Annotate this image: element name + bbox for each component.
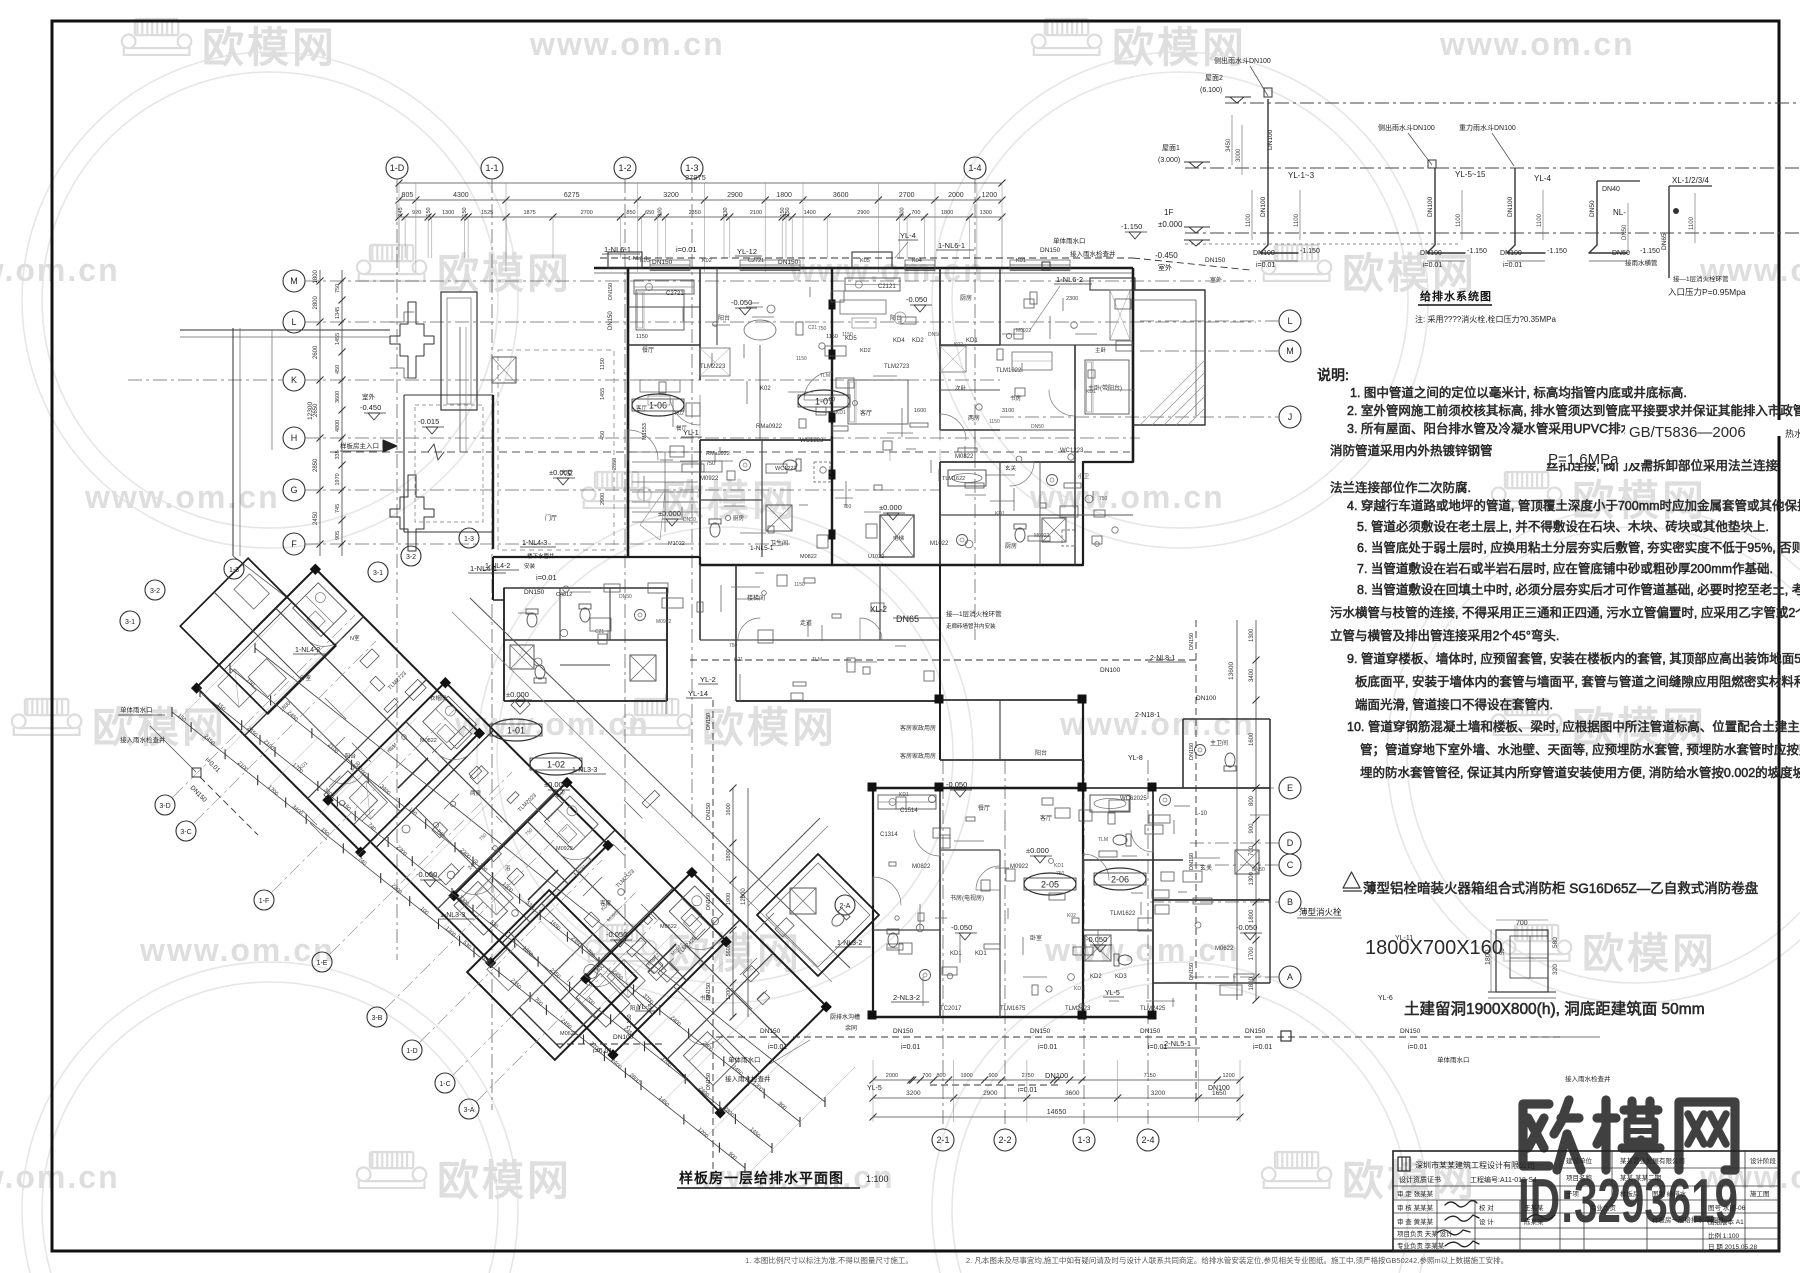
svg-text:厨房: 厨房 — [960, 294, 972, 302]
svg-text:2. 室外管网施工前须校核其标高, 排水管须达到管底平接要: 2. 室外管网施工前须校核其标高, 排水管须达到管底平接要求并保证其能排入市政管… — [1347, 403, 1800, 418]
svg-text:2300: 2300 — [1066, 296, 1078, 302]
svg-text:1525: 1525 — [481, 210, 493, 216]
svg-text:2900: 2900 — [600, 493, 606, 505]
svg-text:DN100: DN100 — [1420, 250, 1442, 257]
svg-text:2-06: 2-06 — [1111, 875, 1129, 885]
svg-text:1-3: 1-3 — [229, 567, 239, 574]
svg-text:1300: 1300 — [442, 210, 454, 216]
svg-text:欧模网: 欧模网 — [437, 250, 572, 297]
svg-text:1800: 1800 — [776, 192, 792, 199]
svg-text:DN150: DN150 — [1189, 963, 1195, 980]
svg-text:接入雨水检查井: 接入雨水检查井 — [1070, 249, 1116, 258]
svg-text:±0.000: ±0.000 — [506, 690, 529, 699]
svg-text:某某·某某二期: 某某·某某二期 — [1620, 1174, 1662, 1182]
svg-text:接—1层消火栓环管: 接—1层消火栓环管 — [946, 609, 1002, 618]
svg-text:DN100: DN100 — [1260, 196, 1267, 217]
top wing extra detail — [632, 451, 698, 453]
svg-text:YL-4: YL-4 — [900, 231, 916, 240]
svg-text:5600: 5600 — [726, 944, 732, 956]
svg-text:KD1: KD1 — [950, 951, 962, 957]
svg-text:阳台: 阳台 — [718, 314, 730, 322]
svg-text:TLM1622: TLM1622 — [942, 476, 965, 482]
svg-text:比例 1:100: 比例 1:100 — [1708, 1231, 1739, 1240]
svg-text:走廊砖墙管井内安装: 走廊砖墙管井内安装 — [946, 622, 996, 630]
svg-text:K: K — [291, 375, 297, 385]
svg-text:1-NL5-1: 1-NL5-1 — [750, 545, 774, 552]
svg-text:侧出雨水斗DN100: 侧出雨水斗DN100 — [1214, 56, 1271, 65]
svg-text:DN100: DN100 — [1253, 250, 1275, 257]
svg-text:1150: 1150 — [796, 356, 807, 362]
svg-text:室外: 室外 — [1210, 276, 1222, 284]
svg-text:1600: 1600 — [1249, 732, 1255, 746]
svg-text:欧模网: 欧模网 — [702, 704, 837, 751]
svg-text:1-NL4-2: 1-NL4-2 — [295, 647, 320, 654]
svg-text:样板房一层给排水平面图: 样板房一层给排水平面图 — [679, 1170, 844, 1186]
svg-text:样板房: 样板房 — [1620, 1189, 1640, 1198]
svg-text:1100: 1100 — [1294, 213, 1300, 227]
entrance lobby — [441, 292, 477, 410]
svg-text:www.om.cn: www.om.cn — [1029, 479, 1225, 515]
svg-text:L: L — [291, 317, 296, 327]
svg-text:M0922: M0922 — [656, 619, 672, 625]
svg-text:1-NL6-2: 1-NL6-2 — [1056, 275, 1083, 284]
svg-text:客厅: 客厅 — [1040, 814, 1052, 822]
svg-text:客房家政用房: 客房家政用房 — [900, 752, 936, 760]
svg-text:1150: 1150 — [989, 419, 1000, 425]
top dimension chains — [399, 182, 1002, 184]
svg-text:M1022: M1022 — [668, 541, 685, 547]
svg-text:1. 本图比例尺寸以标注为准,不得以图量尺寸施工。: 1. 本图比例尺寸以标注为准,不得以图量尺寸施工。 — [745, 1255, 913, 1265]
svg-text:DN150: DN150 — [760, 1028, 781, 1035]
svg-text:2-A: 2-A — [840, 903, 851, 910]
svg-text:1-02: 1-02 — [547, 760, 565, 770]
svg-text:YL-2: YL-2 — [700, 675, 716, 684]
svg-text:i=0.01: i=0.01 — [1408, 1044, 1427, 1051]
svg-text:1-3: 1-3 — [464, 536, 474, 543]
svg-text:50: 50 — [1500, 948, 1506, 955]
svg-text:M0622: M0622 — [1215, 946, 1234, 952]
svg-text:YL-5: YL-5 — [1105, 990, 1120, 997]
svg-text:KD1: KD1 — [966, 338, 978, 344]
svg-text:1600: 1600 — [914, 408, 926, 414]
svg-text:1900: 1900 — [726, 893, 732, 905]
svg-text:DN50: DN50 — [1612, 250, 1630, 257]
svg-text:1800: 1800 — [313, 269, 319, 283]
svg-text:3200: 3200 — [1151, 1090, 1166, 1097]
svg-text:-0.050: -0.050 — [906, 295, 927, 304]
svg-text:2350: 2350 — [689, 210, 701, 216]
svg-text:书房: 书房 — [1010, 394, 1022, 402]
svg-text:750: 750 — [1099, 496, 1108, 502]
svg-text:K01: K01 — [1016, 258, 1026, 264]
svg-text:WC1223: WC1223 — [775, 466, 796, 472]
svg-text:F: F — [291, 539, 297, 549]
svg-text:YL-11: YL-11 — [1395, 935, 1413, 942]
svg-text:YL-5~15: YL-5~15 — [1455, 170, 1486, 179]
diagonal dimension chains — [172, 712, 745, 1168]
svg-text:单体雨水口: 单体雨水口 — [120, 705, 153, 714]
svg-text:DN50: DN50 — [1031, 424, 1044, 430]
svg-text:板底面平, 安装于墙体内的套管与墙面平, 套管与管道之间缝隙: 板底面平, 安装于墙体内的套管与墙面平, 套管与管道之间缝隙应用阻燃密实材料和防… — [1355, 674, 1800, 689]
svg-text:1100: 1100 — [1537, 213, 1543, 227]
svg-text:王某某: 王某某 — [1524, 1204, 1544, 1212]
svg-text:DN150: DN150 — [1189, 743, 1195, 760]
svg-text:745: 745 — [335, 504, 341, 513]
svg-text:750: 750 — [729, 643, 738, 649]
svg-text:某某置业发展有限公司: 某某置业发展有限公司 — [1620, 1156, 1685, 1165]
detail sprinkle — [825, 346, 846, 356]
svg-text:TLM1675: TLM1675 — [1000, 1006, 1026, 1012]
svg-text:2700: 2700 — [581, 210, 593, 216]
svg-text:M1553: M1553 — [642, 423, 648, 440]
svg-text:M: M — [290, 276, 298, 286]
svg-text:KD2: KD2 — [912, 338, 924, 344]
svg-text:GB/T5836—2006: GB/T5836—2006 — [1629, 424, 1746, 441]
svg-text:YL-1~3: YL-1~3 — [1288, 171, 1315, 180]
svg-text:DN50: DN50 — [1622, 224, 1628, 240]
bottom dimension chains — [873, 1079, 1240, 1081]
svg-text:薄型消火栓: 薄型消火栓 — [1299, 907, 1342, 917]
svg-text:900: 900 — [1249, 823, 1255, 834]
svg-text:M0822: M0822 — [955, 454, 974, 460]
svg-text:M1022: M1022 — [930, 541, 949, 547]
svg-text:欧模网: 欧模网 — [437, 1157, 572, 1204]
svg-text:WC62025: WC62025 — [1120, 796, 1147, 802]
svg-text:TC2017: TC2017 — [940, 1006, 962, 1012]
svg-text:YL-4: YL-4 — [1534, 174, 1551, 183]
svg-text:i=0.01: i=0.01 — [1503, 262, 1522, 269]
svg-text:1-E: 1-E — [317, 960, 328, 967]
svg-text:设计阶段: 设计阶段 — [1750, 1156, 1777, 1165]
svg-text:1:100: 1:100 — [866, 1174, 889, 1184]
svg-text:DN100: DN100 — [1045, 1071, 1068, 1080]
svg-text:YL-12: YL-12 — [737, 247, 757, 256]
svg-text:M0922: M0922 — [700, 476, 719, 482]
svg-text:KD1: KD1 — [1054, 863, 1064, 869]
svg-text:-0.015: -0.015 — [418, 417, 439, 426]
svg-text:i=0.01: i=0.01 — [1018, 1087, 1037, 1094]
svg-text:接入雨水检查井: 接入雨水检查井 — [120, 735, 166, 744]
svg-text:DN150: DN150 — [1030, 1028, 1051, 1035]
svg-text:埋的防水套管管径, 保证其内所穿管道安装使用方便, 消防给水: 埋的防水套管管径, 保证其内所穿管道安装使用方便, 消防给水管按0.002的坡度… — [1360, 765, 1800, 780]
svg-text:C2121: C2121 — [878, 284, 896, 290]
svg-text:±0.000: ±0.000 — [544, 780, 567, 789]
svg-text:M0822: M0822 — [800, 554, 817, 560]
svg-text:750: 750 — [706, 461, 715, 467]
svg-text:1-NL6-1: 1-NL6-1 — [604, 245, 631, 254]
svg-text:±0.000: ±0.000 — [1158, 220, 1183, 229]
svg-text:2-2: 2-2 — [998, 1135, 1011, 1145]
svg-text:3. 所有屋面、阳台排水管及冷凝水管采用UPVC排水管: 3. 所有屋面、阳台排水管及冷凝水管采用UPVC排水管 — [1347, 421, 1646, 436]
svg-text:805: 805 — [402, 192, 414, 199]
svg-text:K05: K05 — [860, 258, 870, 264]
svg-text:两房: 两房 — [470, 789, 482, 797]
svg-text:端面光滑, 管道接口不得设在套管内.: 端面光滑, 管道接口不得设在套管内. — [1355, 697, 1553, 712]
svg-text:L: L — [1287, 316, 1292, 326]
svg-text:KD1: KD1 — [1074, 986, 1084, 992]
svg-text:接雨水横管: 接雨水横管 — [1625, 258, 1658, 267]
svg-text:4300: 4300 — [453, 192, 469, 199]
svg-text:M0822: M0822 — [420, 738, 437, 744]
svg-text:1F: 1F — [1164, 208, 1173, 217]
svg-text:320: 320 — [1552, 964, 1559, 975]
svg-text:建设单位: 建设单位 — [1566, 1156, 1593, 1165]
svg-text:3450: 3450 — [1226, 138, 1232, 152]
svg-text:1-3: 1-3 — [1077, 1135, 1090, 1145]
svg-text:DN150: DN150 — [706, 983, 712, 1000]
svg-text:750: 750 — [843, 504, 852, 510]
svg-text:1-NL6-1: 1-NL6-1 — [938, 241, 965, 250]
svg-text:900: 900 — [989, 1073, 998, 1079]
svg-text:3200: 3200 — [906, 1090, 921, 1097]
svg-text:-0.050: -0.050 — [606, 930, 627, 939]
svg-text:说明:: 说明: — [1317, 367, 1349, 383]
right dimension column — [1255, 620, 1257, 1000]
svg-text:DN50: DN50 — [1252, 867, 1265, 873]
svg-text:DN150: DN150 — [608, 283, 614, 300]
svg-text:屋面2: 屋面2 — [1205, 74, 1223, 82]
svg-text:DN150: DN150 — [608, 311, 614, 330]
svg-text:650: 650 — [645, 210, 654, 216]
svg-text:1-D: 1-D — [406, 1048, 417, 1055]
svg-text:1-NL4-3: 1-NL4-3 — [522, 540, 547, 547]
svg-text:3-D: 3-D — [159, 803, 170, 810]
svg-text:2-4: 2-4 — [1141, 1135, 1154, 1145]
svg-text:12600: 12600 — [741, 888, 747, 905]
svg-text:3-A: 3-A — [464, 1107, 475, 1114]
svg-text:1900: 1900 — [960, 1073, 972, 1079]
svg-text:DN150: DN150 — [524, 589, 545, 596]
svg-text:校 对: 校 对 — [1479, 1203, 1494, 1212]
svg-text:1100: 1100 — [1246, 213, 1252, 227]
svg-text:KD1: KD1 — [836, 410, 846, 416]
svg-text:TLM: TLM — [812, 657, 822, 663]
svg-text:1-01: 1-01 — [507, 726, 525, 736]
svg-text:DN50: DN50 — [683, 517, 696, 523]
svg-text:-1.150: -1.150 — [1121, 222, 1142, 231]
svg-text:14650: 14650 — [1047, 1109, 1067, 1116]
svg-text:接入雨水检查井: 接入雨水检查井 — [725, 1074, 771, 1083]
lower block left dims — [732, 788, 734, 1017]
svg-text:图别 给排水: 图别 给排水 — [1652, 1189, 1687, 1198]
svg-text:客厅: 客厅 — [860, 409, 872, 417]
svg-text:1-C: 1-C — [439, 1081, 450, 1088]
svg-text:P=1.6MPa: P=1.6MPa — [1548, 451, 1619, 468]
svg-text:J: J — [1288, 412, 1293, 422]
svg-text:M0822: M0822 — [912, 864, 931, 870]
svg-text:www.om.cn: www.om.cn — [139, 932, 335, 968]
svg-text:DN150: DN150 — [1245, 1028, 1266, 1035]
svg-text:立管与横管及排出管连接采用2个45°弯头.: 立管与横管及排出管连接采用2个45°弯头. — [1330, 628, 1559, 643]
svg-text:8. 当管道敷设在回填土中时, 必须分层夯实后才可作管道基: 8. 当管道敷设在回填土中时, 必须分层夯实后才可作管道基础, 必要时挖至老土,… — [1357, 582, 1800, 597]
svg-text:DN100: DN100 — [1100, 667, 1121, 674]
svg-text:1-06: 1-06 — [649, 401, 667, 411]
svg-text:2750: 2750 — [1022, 1073, 1034, 1079]
svg-text:DN150: DN150 — [1189, 633, 1195, 650]
svg-text:TLM2723: TLM2723 — [884, 364, 910, 370]
svg-text:750: 750 — [335, 284, 341, 293]
svg-text:-0.450: -0.450 — [360, 403, 381, 412]
svg-text:室外: 室外 — [362, 392, 376, 401]
svg-text:小卫: 小卫 — [1078, 472, 1090, 480]
svg-text:700: 700 — [911, 210, 920, 216]
svg-text:K02: K02 — [702, 258, 712, 264]
svg-text:6275: 6275 — [564, 192, 580, 199]
svg-text:i=0.01: i=0.01 — [901, 1044, 920, 1051]
svg-text:YL-6: YL-6 — [1378, 995, 1393, 1002]
svg-text:B: B — [1287, 897, 1293, 907]
svg-text:衣帽间: 衣帽间 — [430, 694, 447, 702]
svg-text:1800: 1800 — [726, 849, 732, 861]
svg-text:日 期 2015.05.28: 日 期 2015.05.28 — [1708, 1243, 1758, 1251]
svg-text:1100: 1100 — [1456, 213, 1462, 227]
svg-text:主卫间: 主卫间 — [1210, 739, 1228, 747]
svg-text:920: 920 — [412, 210, 421, 216]
svg-text:DN100: DN100 — [1500, 250, 1522, 257]
svg-text:H: H — [291, 433, 298, 443]
svg-text:WC1223: WC1223 — [800, 438, 824, 444]
svg-text:2-05: 2-05 — [1041, 880, 1059, 890]
svg-text:专业负责: 专业负责 — [1590, 1203, 1617, 1212]
diagonal wing rooms — [180, 540, 871, 1118]
svg-text:i=0.01: i=0.01 — [1256, 262, 1275, 269]
svg-text:-0.050: -0.050 — [731, 298, 752, 307]
svg-text:审 核 某某某: 审 核 某某某 — [1397, 1203, 1434, 1212]
axis grid lines and bubbles — [386, 157, 408, 179]
svg-text:1800: 1800 — [1249, 909, 1255, 923]
svg-text:法兰连接部位作二次防腐.: 法兰连接部位作二次防腐. — [1330, 480, 1471, 495]
svg-text:1-2: 1-2 — [618, 163, 631, 173]
svg-text:450: 450 — [335, 365, 341, 374]
svg-text:i=0.01: i=0.01 — [536, 573, 557, 582]
svg-text:DN50: DN50 — [928, 332, 941, 338]
svg-text:YL-8: YL-8 — [1128, 755, 1143, 762]
svg-text:子项: 子项 — [1566, 1190, 1580, 1198]
svg-text:1200: 1200 — [982, 192, 998, 199]
svg-text:DN100: DN100 — [1427, 196, 1434, 217]
system diagram 给排水系统图 — [1225, 102, 1800, 104]
svg-text:DN65: DN65 — [896, 614, 919, 624]
svg-text:450: 450 — [600, 431, 606, 440]
svg-text:玄关: 玄关 — [1005, 464, 1017, 472]
svg-text:1150: 1150 — [794, 582, 805, 588]
svg-text:TLM: TLM — [1098, 837, 1108, 843]
svg-text:K02: K02 — [954, 342, 963, 348]
svg-text:YL-5: YL-5 — [867, 1085, 882, 1092]
svg-text:D: D — [1287, 838, 1294, 848]
svg-text:3100: 3100 — [1002, 408, 1014, 414]
svg-text:1. 图中管道之间的定位以毫米计, 标高均指管内底或井底标: 1. 图中管道之间的定位以毫米计, 标高均指管内底或井底标高. — [1350, 385, 1687, 400]
svg-text:1-4: 1-4 — [968, 163, 981, 173]
svg-text:C2721: C2721 — [666, 291, 684, 297]
svg-text:给排水系统图: 给排水系统图 — [1420, 289, 1492, 303]
svg-text:图号 水施-06: 图号 水施-06 — [1708, 1203, 1746, 1212]
svg-text:室外: 室外 — [1158, 263, 1172, 272]
svg-text:审 查 黄某某: 审 查 黄某某 — [1397, 1217, 1434, 1226]
title block table — [1393, 1151, 1779, 1251]
svg-text:客房家政用房: 客房家政用房 — [900, 724, 936, 732]
svg-text:M0622: M0622 — [660, 924, 677, 930]
svg-text:1300: 1300 — [1249, 628, 1255, 642]
svg-text:i=0.01: i=0.01 — [1423, 262, 1442, 269]
svg-text:K02: K02 — [675, 411, 684, 417]
svg-text:700: 700 — [922, 1073, 931, 1079]
svg-text:接—1层消火栓环管: 接—1层消火栓环管 — [1673, 274, 1729, 283]
svg-text:K02: K02 — [760, 386, 771, 392]
svg-text:www.om.cn: www.om.cn — [84, 479, 280, 515]
svg-text:3600: 3600 — [335, 391, 341, 403]
svg-text:KD1: KD1 — [975, 951, 987, 957]
svg-text:DN150: DN150 — [1040, 247, 1061, 254]
svg-text:2-1: 2-1 — [936, 1135, 949, 1145]
svg-text:RMa0922: RMa0922 — [706, 451, 730, 457]
svg-text:薄型铝栓暗装火器箱组合式消防柜 SG16D65Z—乙自救式: 薄型铝栓暗装火器箱组合式消防柜 SG16D65Z—乙自救式消防卷盘 — [1363, 880, 1758, 896]
svg-text:消防管道采用内外热镀锌钢管: 消防管道采用内外热镀锌钢管 — [1330, 443, 1493, 458]
svg-text:餐厅: 餐厅 — [978, 804, 990, 812]
svg-text:2000: 2000 — [948, 192, 964, 199]
svg-text:DN50: DN50 — [1589, 200, 1596, 217]
svg-text:150: 150 — [462, 207, 468, 216]
svg-text:阳台: 阳台 — [1035, 749, 1047, 757]
svg-text:1455: 1455 — [600, 388, 606, 400]
svg-text:K02: K02 — [1067, 913, 1076, 919]
svg-text:YL-1: YL-1 — [683, 428, 699, 437]
fire hydrant note — [1343, 872, 1360, 888]
svg-text:DN50: DN50 — [619, 594, 632, 600]
svg-text:DN150: DN150 — [1189, 853, 1195, 870]
svg-text:TLM1622: TLM1622 — [1110, 911, 1136, 917]
svg-text:样板房主入口: 样板房主入口 — [340, 441, 379, 450]
svg-text:C4812: C4812 — [556, 592, 572, 598]
svg-text:1455: 1455 — [335, 333, 341, 345]
svg-text:2700: 2700 — [899, 192, 915, 199]
svg-text:1650: 1650 — [1212, 1090, 1227, 1097]
svg-text:KD2: KD2 — [860, 348, 871, 354]
svg-text:污水横管与枝管的连接, 不得采用正三通和正四通, 污水立管偏: 污水横管与枝管的连接, 不得采用正三通和正四通, 污水立管偏置时, 应采用乙字管… — [1330, 605, 1800, 620]
svg-text:主卧: 主卧 — [1095, 346, 1107, 354]
svg-text:DN100: DN100 — [1196, 695, 1217, 702]
svg-text:905: 905 — [335, 531, 341, 540]
svg-text:335: 335 — [335, 450, 341, 459]
svg-text:N室: N室 — [350, 634, 360, 642]
svg-text:i=0.01: i=0.01 — [1038, 1044, 1057, 1051]
svg-text:2900: 2900 — [857, 210, 869, 216]
svg-text:www.om.cn: www.om.cn — [0, 252, 120, 288]
svg-text:7. 当管道敷设在岩石或半岩石层时, 应在管底铺中砂或粗砂: 7. 当管道敷设在岩石或半岩石层时, 应在管底铺中砂或粗砂厚200mm作基础. — [1357, 561, 1773, 576]
svg-text:C1314: C1314 — [880, 832, 898, 838]
svg-text:3400: 3400 — [1249, 668, 1255, 682]
svg-text:KD2: KD2 — [1090, 974, 1102, 980]
svg-text:7150: 7150 — [1144, 1073, 1156, 1079]
svg-text:浴: 浴 — [505, 864, 511, 872]
svg-text:厨房: 厨房 — [733, 514, 745, 522]
svg-text:E: E — [1287, 783, 1293, 793]
svg-text:楼下水管井: 楼下水管井 — [527, 552, 555, 560]
mid block rooms — [492, 557, 494, 600]
svg-text:厨排水沟槽: 厨排水沟槽 — [830, 1013, 860, 1021]
svg-text:WC1223: WC1223 — [1060, 448, 1084, 454]
svg-text:TLM2223: TLM2223 — [700, 364, 726, 370]
svg-text:2-NL5-1: 2-NL5-1 — [1164, 1039, 1191, 1048]
lower block pipes and bottom labels — [712, 700, 714, 1180]
svg-text:13600: 13600 — [1228, 662, 1235, 680]
svg-text:±0.000: ±0.000 — [879, 503, 902, 512]
svg-text:700: 700 — [1516, 920, 1528, 927]
svg-text:大堂: 大堂 — [560, 468, 574, 477]
svg-text:2900: 2900 — [983, 1090, 998, 1097]
svg-text:4800: 4800 — [335, 420, 341, 432]
svg-text:屋面1: 屋面1 — [1162, 144, 1180, 152]
